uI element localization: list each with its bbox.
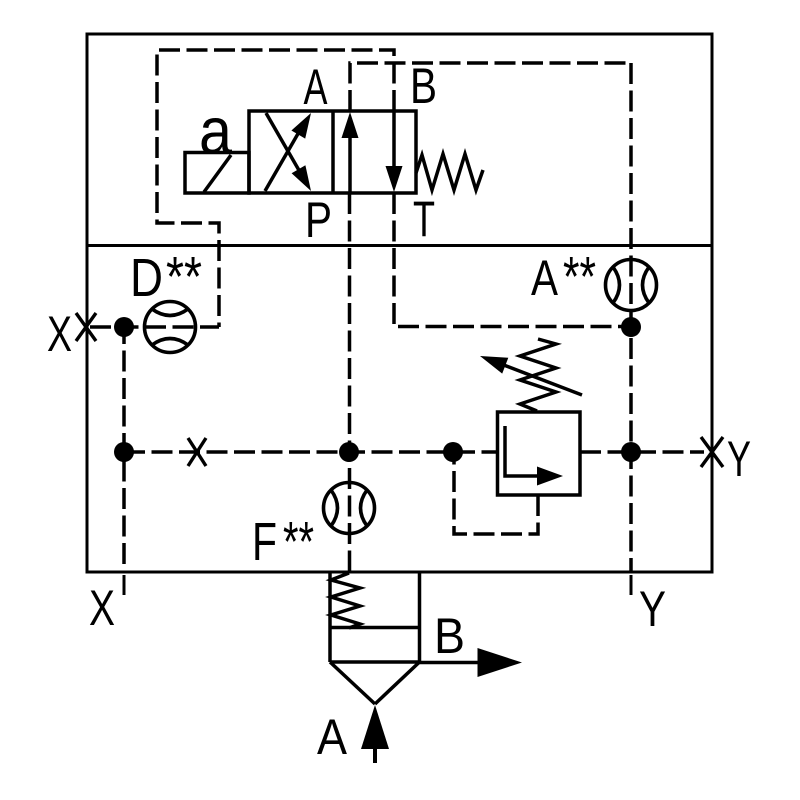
parallel arrows position (P-A up arrow) <box>342 112 359 192</box>
junction dot P column on X-Y line <box>339 442 359 462</box>
svg-text:**: ** <box>283 510 314 574</box>
svg-text:A: A <box>531 250 559 306</box>
solenoid a <box>185 153 249 194</box>
svg-text:**: ** <box>166 245 202 309</box>
X port stub below block <box>123 575 126 595</box>
svg-text:P: P <box>305 192 332 248</box>
svg-text:Y: Y <box>639 581 666 637</box>
svg-text:A: A <box>304 59 328 115</box>
pilot valve U1 body (2 position boxes) <box>249 111 416 193</box>
crossed arrows position (P-B, A-T) <box>265 113 311 191</box>
plug symbol at Y port <box>701 437 723 467</box>
cartridge poppet cone <box>330 662 420 704</box>
relief valve internal flow arrow <box>505 426 563 486</box>
port A flow arrow <box>361 705 389 763</box>
parallel arrows position (B-T down arrow) <box>386 112 403 192</box>
svg-text:T: T <box>413 191 435 247</box>
plug symbol on X-Y line <box>188 438 206 466</box>
Y pilot vertical line (dashed wire) <box>629 63 633 571</box>
Y port stub below block <box>630 575 633 595</box>
relief valve spring <box>520 339 556 411</box>
relief valve adjustment arrow <box>480 356 582 395</box>
valve T drain line to Y (dashed wire) <box>394 193 631 327</box>
cartridge valve sleeve <box>330 571 420 662</box>
svg-text:X: X <box>89 580 115 636</box>
svg-text:B: B <box>410 58 437 114</box>
junction dot Y/T line <box>621 317 641 337</box>
pilot line from valve A port to Y side (dashed) <box>350 63 631 111</box>
pilot line X to D orifice (dashed wire) <box>90 325 219 329</box>
manifold block outline <box>87 34 712 572</box>
junction dot X/D line <box>114 317 134 337</box>
svg-text:**: ** <box>563 245 596 309</box>
svg-text:D: D <box>130 248 163 308</box>
X pilot vertical line (dashed wire) <box>122 327 126 571</box>
plug symbol at X port <box>76 313 96 341</box>
svg-text:Y: Y <box>727 431 751 487</box>
relief valve DB body <box>498 412 581 495</box>
svg-text:A: A <box>317 709 348 765</box>
svg-text:X: X <box>47 306 72 362</box>
cartridge closing spring <box>331 573 360 628</box>
P pilot supply line (dashed wire) <box>348 193 352 571</box>
junction dot Y column on X-Y line <box>621 442 641 462</box>
X-Y transverse line right segment (dashed wire) <box>580 450 704 454</box>
junction dot X column on X-Y line <box>114 442 134 462</box>
relief valve drain line (dashed wire) <box>454 452 538 534</box>
orifice D** <box>145 302 196 353</box>
port B flow arrow <box>420 648 523 677</box>
orifice A** <box>606 260 657 311</box>
cover/block divider line <box>87 244 712 247</box>
svg-text:F: F <box>252 512 277 572</box>
pilot line from valve B port to D orifice (dashed) <box>157 50 394 327</box>
X-Y transverse line left segment (dashed wire) <box>124 450 497 454</box>
valve return spring <box>416 154 483 190</box>
svg-text:a: a <box>199 94 232 168</box>
svg-text:B: B <box>434 608 465 664</box>
orifice F** <box>324 483 375 534</box>
junction dot relief branch on X-Y line <box>443 442 463 462</box>
